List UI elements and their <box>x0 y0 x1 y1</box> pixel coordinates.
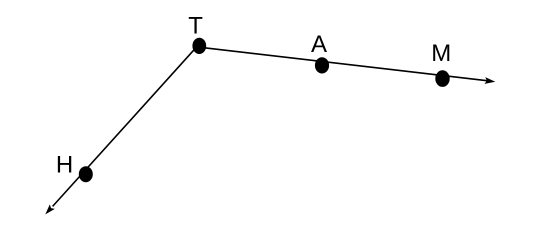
svg-text:H: H <box>56 151 73 178</box>
arrowhead lower-left end of ray TH <box>45 204 55 214</box>
svg-text:T: T <box>188 13 203 40</box>
point A <box>315 57 329 73</box>
wire ray from T through A and M <box>197 47 488 81</box>
wire ray from T through H <box>53 43 200 206</box>
svg-text:A: A <box>311 31 327 58</box>
arrowhead right end of ray TAM <box>484 77 495 84</box>
point T <box>192 38 206 54</box>
point M <box>435 70 449 87</box>
svg-text:M: M <box>431 40 451 67</box>
point H <box>79 166 93 182</box>
